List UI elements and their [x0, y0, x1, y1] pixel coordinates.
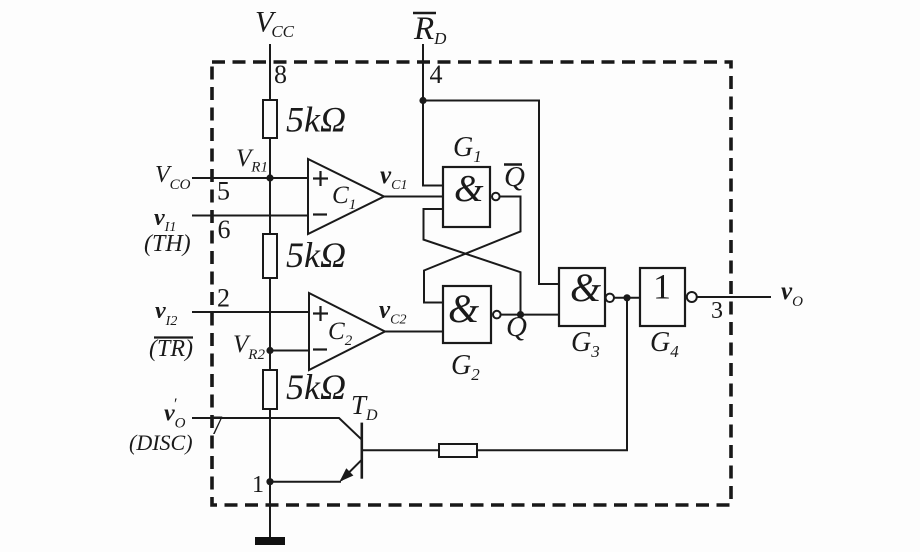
gate G2 (NAND)	[443, 286, 501, 343]
IC dashed border box	[212, 62, 731, 505]
wire Q to G1 input (cross-coupling)	[424, 209, 521, 315]
wire VCC to resistor R1	[269, 44, 271, 100]
svg-text:2: 2	[217, 284, 230, 313]
wire pin 2 (TR)	[192, 311, 309, 313]
svg-text:5: 5	[217, 177, 230, 206]
gate G4 (buffer 1)	[640, 267, 697, 327]
gate G3 (NAND)	[559, 265, 614, 326]
wire G2 output to G3	[501, 314, 559, 316]
svg-text:5kΩ: 5kΩ	[286, 100, 346, 140]
node RD-bar label	[413, 11, 447, 48]
svg-text:8: 8	[274, 60, 287, 89]
wire base resistor to TD base	[362, 449, 439, 451]
wire RD branch to G3	[423, 101, 559, 285]
svg-text:7: 7	[210, 411, 223, 440]
wire G4 output (pin 3)	[697, 296, 771, 298]
op-amp comparator C1	[308, 159, 384, 234]
resistor base (TD base resistor)	[439, 444, 477, 457]
node Q junction dot	[517, 311, 524, 318]
resistor R2 5kΩ	[263, 234, 277, 278]
node (TR-bar) label	[149, 336, 193, 362]
wire pin 5 (VCO)	[192, 177, 308, 179]
wire RD to G1 input	[423, 44, 443, 186]
resistor R1 5kΩ	[263, 100, 277, 138]
svg-text:′: ′	[174, 396, 178, 413]
wire R1 to R2	[269, 138, 271, 234]
svg-text:&: &	[448, 286, 479, 331]
pin 1 junction dot	[266, 478, 273, 485]
svg-text:4: 4	[430, 60, 443, 89]
svg-text:&: &	[570, 265, 601, 310]
node VCC label	[255, 6, 295, 42]
svg-text:&: &	[454, 168, 484, 210]
node VR2 junction dot	[266, 347, 273, 354]
svg-text:3: 3	[711, 298, 723, 324]
wire G3 output to base resistor	[477, 298, 627, 450]
op-amp comparator C2	[309, 293, 385, 370]
wire C1 output to G1	[384, 196, 443, 198]
wire R2 to R3	[269, 278, 271, 370]
wire C2 output to G2	[385, 331, 443, 333]
svg-text:(TH): (TH)	[144, 231, 191, 257]
wire TD emitter to pin 1	[270, 481, 341, 483]
wire G3 output to G4	[614, 297, 640, 299]
svg-text:(TR): (TR)	[149, 336, 193, 362]
node base junction dot	[623, 294, 630, 301]
wire VR2 to C2 minus input	[270, 350, 309, 352]
svg-text:1: 1	[653, 267, 671, 307]
svg-text:5kΩ: 5kΩ	[286, 235, 346, 275]
node vO' label	[164, 396, 186, 432]
node VR1 junction dot	[266, 174, 273, 181]
resistor R3 5kΩ	[263, 370, 277, 409]
svg-text:(DISC): (DISC)	[129, 430, 193, 455]
node Q-bar label	[504, 161, 525, 193]
svg-text:Q: Q	[504, 161, 525, 193]
wire pin 7 (DISC) to TD collector	[192, 418, 362, 440]
transistor TD	[340, 423, 362, 482]
svg-text:6: 6	[218, 215, 231, 244]
wire pin 6 (TH)	[192, 215, 308, 217]
node RD junction dot	[419, 97, 426, 104]
wire Q-bar to G2 input (cross-coupling)	[424, 197, 521, 303]
svg-text:1: 1	[252, 472, 264, 498]
svg-text:5kΩ: 5kΩ	[286, 367, 346, 407]
wire R3 to ground node	[269, 409, 271, 537]
gate G1 (NAND)	[443, 167, 500, 227]
ground symbol	[255, 537, 285, 545]
